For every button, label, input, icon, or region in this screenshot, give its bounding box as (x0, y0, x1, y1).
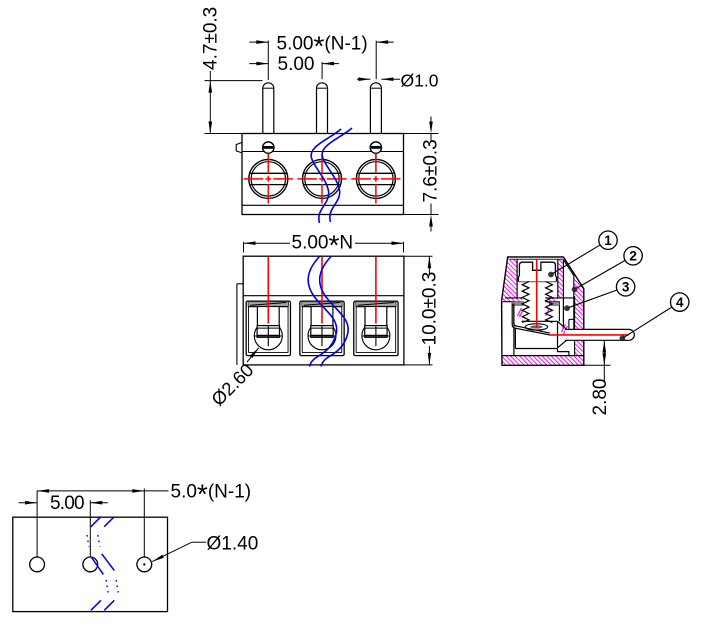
svg-text:2: 2 (629, 249, 637, 264)
svg-text:5.00: 5.00 (50, 493, 84, 514)
svg-text:1: 1 (604, 233, 612, 248)
svg-text:3: 3 (622, 280, 630, 295)
svg-text:4: 4 (676, 295, 684, 310)
svg-text:7.6±0.3: 7.6±0.3 (421, 139, 442, 202)
svg-text:10.0±0.3: 10.0±0.3 (420, 272, 441, 346)
svg-text:4.7±0.3: 4.7±0.3 (200, 7, 221, 70)
svg-text:Ø1.0: Ø1.0 (401, 71, 439, 91)
svg-text:5.00: 5.00 (278, 54, 315, 75)
svg-text:Ø1.40: Ø1.40 (207, 533, 259, 554)
svg-text:2.80: 2.80 (590, 379, 611, 416)
